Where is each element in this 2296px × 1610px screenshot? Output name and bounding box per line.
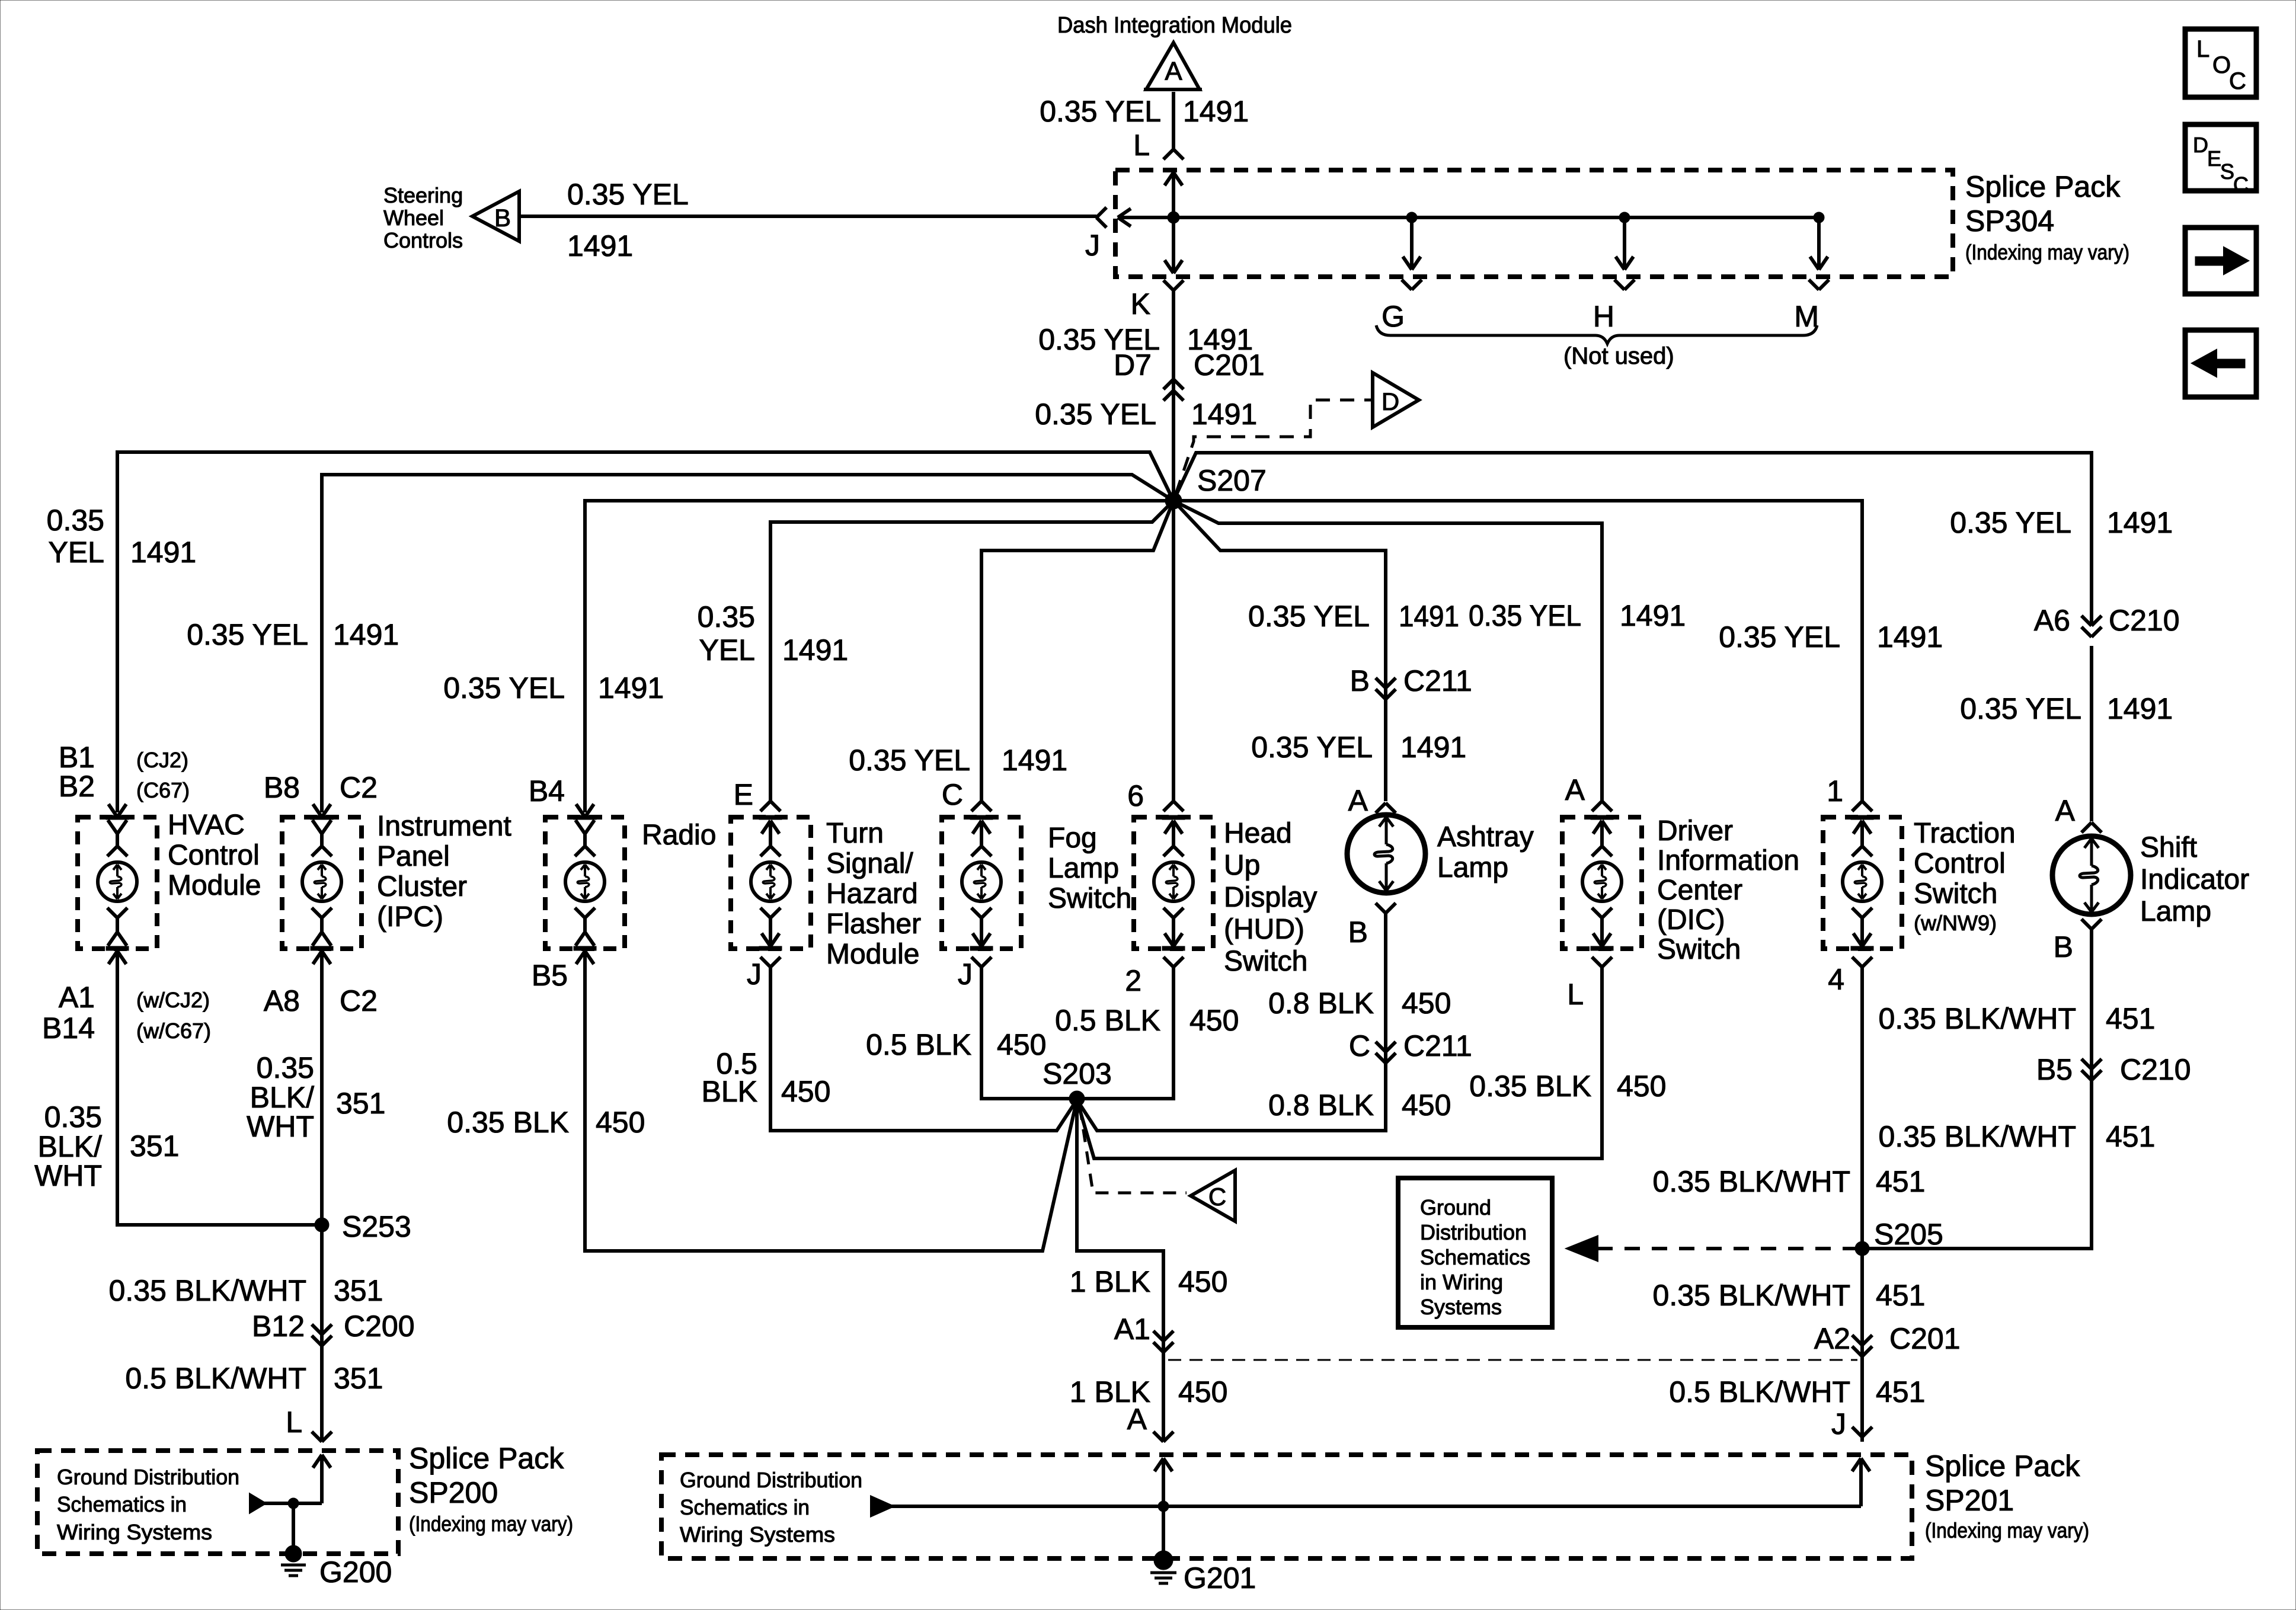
svg-text:Controls: Controls	[383, 228, 463, 252]
svg-text:HVAC: HVAC	[168, 809, 245, 841]
svg-text:(w/CJ2): (w/CJ2)	[136, 988, 210, 1012]
Driver Information Center Switch U7 top inside arrow	[1593, 821, 1602, 834]
svg-text:C211: C211	[1403, 664, 1472, 697]
Driver Information Center Switch U7 top pin fork (outside)	[1592, 801, 1602, 811]
svg-text:2: 2	[1125, 964, 1141, 997]
Shift Indicator Lamp E2	[2052, 836, 2131, 914]
Ashtray Lamp E1 top fork	[1376, 803, 1386, 813]
Ashtray bottom fork	[1376, 903, 1386, 913]
svg-text:WHT: WHT	[34, 1159, 102, 1192]
svg-text:C: C	[2229, 68, 2246, 94]
Instrument Panel Cluster U2 top inside fork	[312, 820, 322, 834]
svg-text:SP304: SP304	[1965, 204, 2054, 238]
Shift bottom fork	[2081, 919, 2092, 929]
svg-text:451: 451	[1876, 1165, 1925, 1198]
svg-text:E: E	[734, 778, 753, 811]
Turn Signal Flasher Module U4 top inside arrow	[762, 821, 770, 834]
svg-text:Dash Integration Module: Dash Integration Module	[1057, 13, 1292, 38]
svg-text:0.35 YEL: 0.35 YEL	[1040, 95, 1161, 128]
svg-text:1491: 1491	[1877, 620, 1943, 654]
Head Up Display Switch U6 bottom inside arrow	[1163, 908, 1173, 918]
svg-text:351: 351	[336, 1087, 385, 1120]
svg-text:6: 6	[1127, 779, 1144, 812]
SP304 internal bus wire	[1118, 216, 1819, 219]
svg-text:(Indexing may vary): (Indexing may vary)	[409, 1512, 573, 1536]
wire HVAC bottom to S253	[117, 951, 316, 1225]
svg-text:Lamp: Lamp	[1437, 852, 1508, 884]
svg-text:0.35 YEL: 0.35 YEL	[849, 744, 970, 777]
svg-text:L: L	[286, 1406, 302, 1439]
svg-text:Fog: Fog	[1048, 822, 1097, 854]
svg-text:C200: C200	[344, 1310, 415, 1343]
wire K to C201 connector	[1172, 290, 1175, 501]
wire S207 to HVAC feed	[117, 452, 1173, 812]
svg-text:G: G	[1382, 300, 1405, 333]
svg-text:351: 351	[130, 1129, 179, 1163]
svg-text:D: D	[2193, 133, 2208, 157]
svg-text:(CJ2): (CJ2)	[136, 748, 188, 772]
svg-text:Schematics in: Schematics in	[57, 1492, 187, 1516]
Driver Information Center Switch U7 internal lamp symbol	[1582, 862, 1622, 901]
svg-text:B5: B5	[2036, 1053, 2073, 1086]
svg-text:in Wiring: in Wiring	[1420, 1270, 1503, 1294]
svg-text:B8: B8	[264, 771, 300, 804]
svg-text:C: C	[1208, 1183, 1226, 1211]
svg-text:450: 450	[997, 1028, 1046, 1061]
wire S207 to Radio feed	[585, 501, 1173, 812]
svg-text:0.35 BLK/WHT: 0.35 BLK/WHT	[1879, 1120, 2076, 1153]
svg-text:J: J	[958, 958, 973, 991]
svg-text:0.35 YEL: 0.35 YEL	[1719, 620, 1840, 654]
svg-text:Switch: Switch	[1048, 883, 1131, 914]
svg-text:C: C	[1349, 1029, 1370, 1062]
svg-text:(w/C67): (w/C67)	[136, 1019, 211, 1043]
Head Up Display Switch U6 top pin fork (outside)	[1163, 801, 1173, 811]
svg-text:G201: G201	[1184, 1561, 1256, 1595]
SP200 internal arrow head	[250, 1494, 265, 1512]
dashed reference wire to triangle D	[1176, 400, 1371, 494]
svg-text:0.35: 0.35	[257, 1051, 314, 1084]
svg-text:A: A	[2055, 794, 2076, 827]
Instrument Panel Cluster U2 internal lamp symbol	[302, 862, 341, 901]
svg-text:1491: 1491	[1002, 744, 1067, 777]
svg-text:1491: 1491	[333, 618, 399, 651]
svg-text:Splice Pack: Splice Pack	[409, 1442, 564, 1475]
SP304 bottom arrow toward pin K	[1172, 217, 1175, 273]
svg-text:Ground: Ground	[1420, 1195, 1491, 1219]
legend box LOC	[2185, 29, 2256, 97]
fork at SP200 pin L	[312, 1432, 322, 1442]
svg-text:A2: A2	[1814, 1322, 1850, 1355]
svg-text:Head: Head	[1224, 818, 1292, 849]
svg-text:351: 351	[334, 1362, 383, 1395]
Radio U3 top pin male arrow (outside)	[576, 804, 585, 817]
svg-text:Lamp: Lamp	[1048, 853, 1119, 884]
svg-text:A1: A1	[59, 981, 95, 1014]
SP200 top arrow	[313, 1455, 322, 1468]
svg-text:C201: C201	[1194, 348, 1265, 382]
svg-text:451: 451	[1876, 1375, 1925, 1409]
Head Up Display Switch U6 bottom pin fork (outside)	[1163, 957, 1173, 967]
svg-text:Switch: Switch	[1914, 878, 1997, 910]
wire SWC to SP304 pin J	[519, 215, 1096, 218]
splice junction on SP304 bus	[1168, 212, 1179, 223]
svg-text:H: H	[1593, 300, 1614, 333]
svg-text:Module: Module	[168, 870, 261, 901]
svg-text:B5: B5	[532, 959, 568, 992]
svg-text:450: 450	[1189, 1004, 1239, 1037]
Instrument Panel Cluster U2 bottom connector bar	[311, 946, 333, 950]
Fog Lamp Switch U5 bottom pin fork (outside)	[971, 957, 981, 967]
svg-text:(HUD): (HUD)	[1224, 914, 1304, 945]
splice S205	[1855, 1241, 1869, 1256]
svg-text:Flasher: Flasher	[826, 908, 921, 940]
svg-text:C: C	[942, 778, 963, 811]
svg-text:Splice Pack: Splice Pack	[1965, 170, 2121, 203]
Traction Control Switch U8 bottom pin fork (outside)	[1852, 957, 1862, 967]
off-page triangle D	[1373, 373, 1419, 427]
Instrument Panel Cluster U2 bottom inside fork	[312, 908, 322, 918]
svg-text:G200: G200	[319, 1555, 392, 1589]
Radio U3 bottom connector bar	[574, 946, 596, 950]
splice S253	[315, 1218, 329, 1232]
svg-text:0.35 BLK/WHT: 0.35 BLK/WHT	[1653, 1165, 1850, 1198]
svg-text:(Not used): (Not used)	[1563, 343, 1674, 369]
SP304 drop G	[1406, 212, 1417, 223]
Driver Information Center Switch U7 bottom pin fork (outside)	[1592, 957, 1602, 967]
off-page triangle C	[1191, 1170, 1235, 1221]
Traction Control Switch U8 top pin fork (outside)	[1852, 801, 1862, 811]
Fog Lamp Switch U5 bottom inside arrow	[971, 908, 981, 918]
svg-text:(w/NW9): (w/NW9)	[1914, 911, 1997, 935]
svg-text:L: L	[1567, 978, 1584, 1011]
svg-text:Cluster: Cluster	[377, 871, 467, 902]
Turn Signal Flasher Module U4 bottom connector bar	[759, 946, 782, 950]
inline connector C210 chevrons (B5)	[2081, 1059, 2092, 1069]
Turn Signal Flasher Module U4 top pin fork (outside)	[760, 801, 770, 811]
svg-text:Schematics: Schematics	[1420, 1245, 1530, 1269]
Splice Pack SP304 dashed box	[1115, 170, 1953, 277]
fork at SP304 pin L	[1163, 149, 1173, 159]
svg-text:Lamp: Lamp	[2140, 896, 2211, 927]
svg-text:0.5 BLK/WHT: 0.5 BLK/WHT	[125, 1362, 306, 1395]
svg-text:Hazard: Hazard	[826, 878, 918, 910]
svg-text:Control: Control	[1914, 848, 2006, 879]
svg-text:4: 4	[1828, 963, 1844, 996]
svg-text:C210: C210	[2120, 1053, 2191, 1086]
svg-text:1491: 1491	[1191, 398, 1257, 431]
wire Traction bottom through S205 to SP201	[1860, 967, 1864, 1442]
Head Up Display Switch U6 internal lamp symbol	[1154, 862, 1193, 901]
svg-text:BLK/: BLK/	[250, 1081, 315, 1114]
svg-text:1: 1	[1827, 774, 1843, 808]
HVAC Control Module U1 dashed box	[78, 817, 157, 949]
Instrument Panel Cluster U2 top connector bar	[311, 815, 333, 820]
Radio U3 dashed box	[545, 817, 625, 949]
svg-text:1491: 1491	[567, 229, 633, 263]
svg-text:BLK/: BLK/	[38, 1130, 103, 1163]
SP304 left arrow to pin J	[1118, 209, 1131, 217]
svg-text:451: 451	[2106, 1120, 2155, 1153]
Splice Pack SP200 dashed box	[37, 1451, 398, 1554]
svg-text:Systems: Systems	[1420, 1295, 1502, 1319]
Instrument Panel Cluster U2 dashed box	[282, 817, 362, 949]
svg-text:Indicator: Indicator	[2140, 864, 2249, 895]
svg-text:351: 351	[334, 1274, 383, 1307]
svg-text:J: J	[1831, 1407, 1846, 1441]
svg-text:Display: Display	[1224, 882, 1317, 913]
ground G201 symbol	[1154, 1551, 1173, 1570]
svg-text:A: A	[1165, 57, 1182, 86]
wire S207 to Traction Control feed	[1173, 501, 1862, 801]
Driver Information Center Switch U7 bottom inside arrow	[1592, 908, 1602, 918]
svg-text:(Indexing may vary): (Indexing may vary)	[1965, 240, 2129, 264]
Traction Control Switch U8 bottom inside arrow	[1852, 908, 1862, 918]
inline connector C201 chevrons	[1163, 379, 1173, 389]
svg-text:450: 450	[1402, 987, 1451, 1020]
wire S207 to IPC feed	[322, 475, 1173, 812]
svg-text:WHT: WHT	[247, 1110, 314, 1143]
svg-text:A: A	[1565, 773, 1585, 806]
svg-text:0.35: 0.35	[44, 1100, 102, 1134]
SP304 drop H	[1619, 212, 1630, 223]
Radio U3 bottom inside fork	[575, 908, 585, 918]
Head Up Display Switch U6 top inside arrow	[1165, 821, 1173, 834]
Turn Signal Flasher Module U4 dashed box	[731, 817, 811, 949]
Ground Distribution Schematics reference box	[1398, 1178, 1552, 1327]
svg-text:450: 450	[1617, 1070, 1666, 1103]
svg-text:0.5 BLK: 0.5 BLK	[1055, 1004, 1160, 1037]
Radio U3 top connector bar	[574, 815, 596, 820]
Instrument Panel Cluster U2 bottom pin male arrow (outside)	[313, 951, 322, 964]
HVAC Control Module U1 internal lamp symbol	[98, 862, 137, 901]
Radio U3 internal lamp symbol	[565, 862, 605, 901]
HVAC Control Module U1 top inside fork	[108, 820, 117, 834]
off-page triangle A to Dash Integration Module	[1146, 43, 1200, 89]
svg-text:S: S	[2220, 159, 2234, 184]
svg-text:0.35: 0.35	[47, 504, 104, 537]
HVAC Control Module U1 top pin male arrow (outside)	[108, 804, 117, 817]
svg-text:Switch: Switch	[1657, 934, 1741, 965]
svg-text:0.35 YEL: 0.35 YEL	[1469, 599, 1581, 632]
svg-text:0.35 BLK: 0.35 BLK	[447, 1106, 569, 1139]
svg-text:B: B	[1350, 664, 1370, 697]
svg-text:D: D	[1382, 388, 1399, 415]
SP304 top arrow toward pin L	[1165, 172, 1173, 185]
svg-text:Schematics in: Schematics in	[680, 1495, 810, 1519]
inline connector C201 chevrons (A1)	[1153, 1331, 1163, 1341]
svg-text:Control: Control	[168, 840, 260, 871]
Fog Lamp Switch U5 top inside arrow	[973, 821, 981, 834]
wire S203 to SP201	[1077, 1099, 1163, 1442]
Fog Lamp Switch U5 dashed box	[942, 817, 1021, 949]
fork at SP201 pin J	[1852, 1427, 1862, 1437]
SP201 internal arrow head	[871, 1497, 893, 1516]
svg-text:0.5 BLK/WHT: 0.5 BLK/WHT	[1669, 1375, 1850, 1409]
off-page triangle B to Steering Wheel Controls	[472, 191, 519, 241]
svg-text:0.35 YEL: 0.35 YEL	[1035, 398, 1156, 431]
svg-text:Radio: Radio	[642, 820, 716, 851]
svg-text:(IPC): (IPC)	[377, 901, 443, 933]
svg-text:BLK: BLK	[701, 1075, 757, 1108]
svg-text:Ground Distribution: Ground Distribution	[680, 1468, 862, 1492]
Fog Lamp Switch U5 top pin fork (outside)	[971, 801, 981, 811]
wire S207 to Ashtray Lamp feed	[1173, 501, 1386, 801]
svg-text:A: A	[1348, 784, 1368, 817]
wire S207 to Shift Indicator Lamp feed	[1173, 453, 2092, 625]
svg-text:1491: 1491	[1620, 599, 1686, 632]
svg-text:Splice Pack: Splice Pack	[1925, 1449, 2080, 1483]
wire Fog bottom to S203	[981, 967, 1077, 1099]
svg-text:S203: S203	[1043, 1057, 1112, 1090]
svg-text:Ground Distribution: Ground Distribution	[57, 1465, 239, 1489]
svg-text:Distribution: Distribution	[1420, 1220, 1527, 1244]
svg-text:450: 450	[1178, 1265, 1227, 1298]
svg-text:0.35 YEL: 0.35 YEL	[1950, 506, 2071, 539]
svg-text:B: B	[1348, 916, 1368, 949]
wire S207 to Turn Signal feed	[770, 501, 1173, 801]
svg-text:Wheel: Wheel	[383, 206, 444, 230]
Radio U3 bottom pin male arrow (outside)	[576, 951, 585, 964]
Splice Pack SP201 dashed box	[661, 1455, 1912, 1558]
svg-text:Shift: Shift	[2140, 832, 2197, 863]
SP200 junction	[288, 1498, 299, 1509]
svg-text:A: A	[1127, 1403, 1147, 1436]
svg-text:Up: Up	[1224, 850, 1260, 881]
svg-text:A1: A1	[1114, 1313, 1150, 1346]
Traction Control Switch U8 internal lamp symbol	[1843, 862, 1882, 901]
SP304 pin J fork (outside)	[1096, 207, 1107, 217]
Traction Control Switch U8 bottom connector bar	[1851, 946, 1873, 950]
svg-text:Center: Center	[1657, 875, 1742, 906]
svg-text:Wiring Systems: Wiring Systems	[57, 1520, 212, 1544]
Fog Lamp Switch U5 bottom connector bar	[970, 946, 993, 950]
svg-text:B2: B2	[59, 770, 95, 803]
SP304 drop M	[1814, 212, 1824, 223]
svg-text:C2: C2	[340, 984, 378, 1017]
svg-text:451: 451	[2106, 1002, 2155, 1035]
brace under G H M	[1376, 325, 1817, 344]
svg-text:0.35 BLK/WHT: 0.35 BLK/WHT	[1653, 1279, 1850, 1312]
svg-text:0.35 YEL: 0.35 YEL	[443, 671, 565, 705]
svg-text:C201: C201	[1889, 1322, 1961, 1355]
Traction Control Switch U8 top inside arrow	[1853, 821, 1862, 834]
splice S203	[1069, 1091, 1085, 1106]
wire DIC bottom to S203	[1077, 967, 1602, 1158]
svg-text:0.35: 0.35	[698, 600, 755, 633]
Fog Lamp Switch U5 internal lamp symbol	[962, 862, 1001, 901]
Driver Information Center Switch U7 dashed box	[1562, 817, 1642, 949]
SP201 right branch to pin J	[1859, 1458, 1863, 1506]
svg-text:450: 450	[1178, 1375, 1227, 1409]
svg-text:B1: B1	[59, 741, 95, 774]
svg-text:S253: S253	[342, 1210, 411, 1243]
svg-text:Signal/: Signal/	[826, 848, 913, 879]
svg-text:Panel: Panel	[377, 841, 450, 872]
svg-text:0.35 YEL: 0.35 YEL	[1251, 731, 1373, 764]
svg-text:D7: D7	[1114, 348, 1152, 382]
svg-text:Switch: Switch	[1224, 946, 1307, 977]
svg-text:SP200: SP200	[409, 1476, 498, 1509]
svg-text:0.35 YEL: 0.35 YEL	[1960, 692, 2081, 725]
svg-text:1491: 1491	[782, 633, 848, 667]
svg-text:0.8 BLK: 0.8 BLK	[1268, 1089, 1374, 1122]
svg-text:1491: 1491	[1183, 95, 1249, 128]
SP200 internal wire	[264, 1502, 322, 1505]
svg-text:YEL: YEL	[699, 633, 755, 667]
SP201 internal bus wire	[891, 1505, 1861, 1508]
HVAC Control Module U1 bottom inside fork	[107, 908, 117, 918]
legend box previous arrow	[2185, 330, 2256, 397]
svg-text:S205: S205	[1874, 1218, 1943, 1251]
Shift Indicator Lamp E2 top fork	[2081, 822, 2092, 833]
svg-text:1491: 1491	[598, 671, 664, 705]
Traction Control Switch U8 dashed box	[1823, 817, 1902, 949]
wire S207 to DIC feed	[1173, 501, 1602, 801]
wire S207 to Fog Lamp feed	[981, 501, 1173, 801]
wire Shift bottom to S205	[1862, 929, 2092, 1249]
svg-text:1491: 1491	[1400, 731, 1466, 764]
svg-text:450: 450	[596, 1106, 645, 1139]
svg-text:Wiring Systems: Wiring Systems	[680, 1522, 835, 1547]
wire C210 to Shift lamp	[2090, 646, 2093, 821]
wire Radio bottom to S203	[585, 951, 1077, 1251]
svg-text:450: 450	[1402, 1089, 1451, 1122]
arrow head at reference box	[1568, 1237, 1597, 1260]
inline connector C211 chevrons	[1376, 1042, 1386, 1052]
svg-text:(Indexing may vary): (Indexing may vary)	[1925, 1518, 2089, 1542]
Fog Lamp Switch U5 top connector bar	[970, 815, 993, 820]
wire IPC bottom through S253 to SP200	[320, 951, 324, 1442]
svg-text:B: B	[494, 204, 511, 232]
svg-text:B14: B14	[42, 1012, 95, 1045]
svg-text:J: J	[1085, 229, 1100, 262]
svg-text:Steering: Steering	[383, 183, 463, 207]
svg-text:Traction: Traction	[1914, 818, 2016, 849]
svg-text:Module: Module	[826, 939, 919, 970]
legend box DESC	[2185, 124, 2256, 191]
HVAC Control Module U1 bottom connector bar	[106, 946, 129, 950]
svg-text:J: J	[747, 958, 762, 991]
svg-text:E: E	[2207, 146, 2221, 171]
svg-text:C210: C210	[2109, 604, 2180, 637]
inline connector C201 chevrons (A2)	[1852, 1335, 1862, 1345]
svg-text:O: O	[2212, 52, 2231, 78]
svg-text:B: B	[2054, 930, 2073, 964]
Turn Signal Flasher Module U4 internal lamp symbol	[751, 862, 790, 901]
Instrument Panel Cluster U2 top pin male arrow (outside)	[313, 804, 322, 817]
svg-text:S207: S207	[1197, 464, 1267, 497]
Head Up Display Switch U6 bottom connector bar	[1162, 946, 1185, 950]
Traction Control Switch U8 top connector bar	[1851, 815, 1873, 820]
legend box next arrow	[2185, 228, 2256, 294]
svg-text:0.35 YEL: 0.35 YEL	[187, 618, 308, 651]
ground G200 symbol	[285, 1545, 302, 1562]
SP201 junction at G201	[1158, 1501, 1169, 1512]
svg-text:Turn: Turn	[826, 818, 884, 849]
fork at pin K below SP304	[1163, 280, 1173, 290]
svg-text:1 BLK: 1 BLK	[1070, 1265, 1150, 1298]
svg-text:L: L	[2196, 36, 2209, 62]
svg-text:A8: A8	[264, 984, 300, 1017]
svg-text:B4: B4	[529, 774, 565, 808]
svg-text:0.8 BLK: 0.8 BLK	[1268, 987, 1374, 1020]
svg-text:1491: 1491	[2107, 506, 2173, 539]
wire Ashtray bottom to S203	[1077, 913, 1386, 1131]
dashed link between C201 connectors	[1168, 1359, 1857, 1361]
wire DIM to splice pack SP304	[1172, 92, 1175, 149]
svg-text:Instrument: Instrument	[377, 811, 511, 842]
